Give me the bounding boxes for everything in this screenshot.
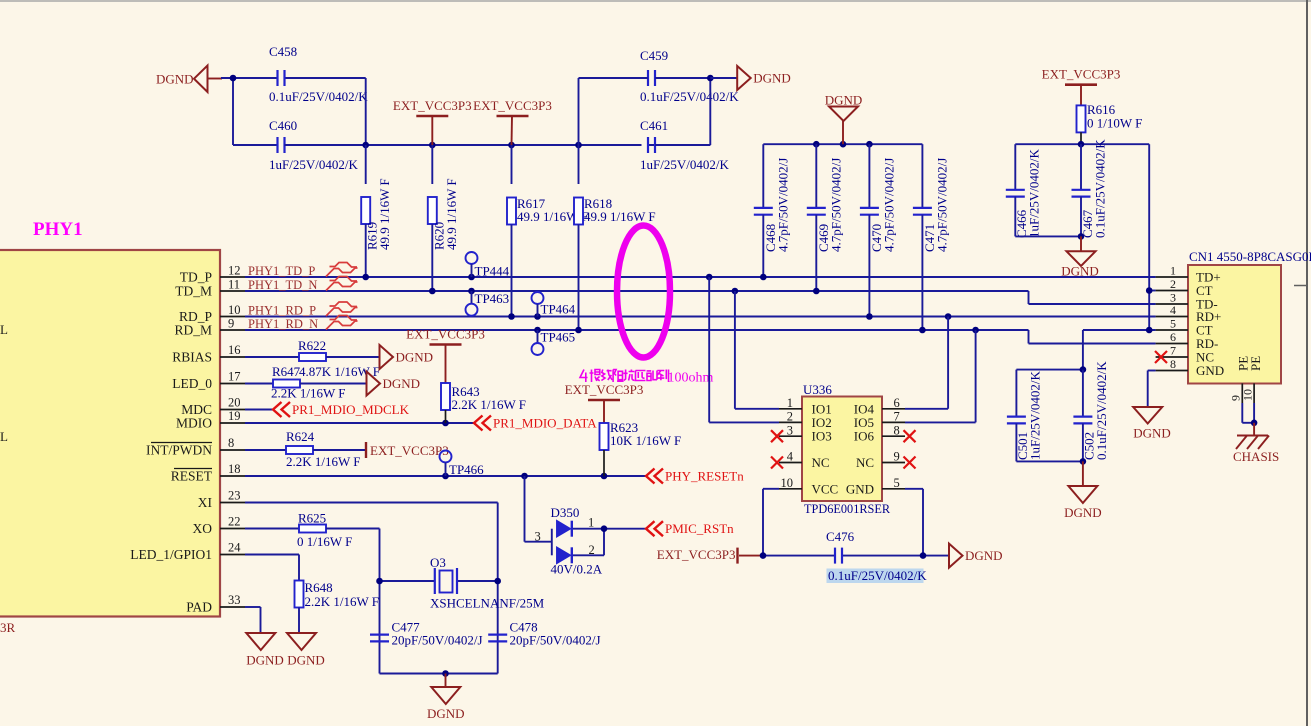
PHY1 pin 11 TD_M stub <box>220 290 245 292</box>
svg-text:1: 1 <box>787 396 793 410</box>
wire diode cathodes to PMIC_RSTn <box>573 528 646 530</box>
capacitor C501 <box>1016 369 1083 371</box>
svg-text:49.9 1/16W F: 49.9 1/16W F <box>377 178 392 250</box>
svg-text:C476: C476 <box>826 529 855 544</box>
U336 pin 4 NC <box>779 462 802 464</box>
test point TP465 <box>537 330 539 343</box>
wire C466/C467 gnd rail <box>1015 235 1081 237</box>
svg-text:2.2K 1/16W F: 2.2K 1/16W F <box>286 454 361 469</box>
U336 pin 8 IO6 <box>882 435 905 437</box>
capacitor C468 <box>762 144 764 208</box>
svg-text:XO: XO <box>193 521 213 536</box>
IC U336 body <box>802 397 882 502</box>
ground DGND (C501/C502) <box>1082 461 1084 486</box>
svg-text:4: 4 <box>787 450 794 464</box>
CN1 pins 9,10 <box>1241 383 1243 403</box>
PHY1 pin 9 RD_M stub <box>220 329 245 331</box>
U336 pin 2 IO2 <box>779 421 802 423</box>
svg-text:DGND: DGND <box>753 71 791 86</box>
wire PAD <box>245 606 261 608</box>
capacitor C469 <box>815 144 817 208</box>
U336 pin 7 IO5 <box>882 421 905 423</box>
svg-text:0.1uF/25V/0402/K: 0.1uF/25V/0402/K <box>1093 139 1108 238</box>
svg-text:TP466: TP466 <box>449 462 484 477</box>
svg-text:C459: C459 <box>640 48 668 63</box>
svg-text:TD_P: TD_P <box>180 270 212 285</box>
U336 pin 9 NC <box>882 462 905 464</box>
wire crystal ground rail <box>380 673 498 675</box>
svg-text:16: 16 <box>228 343 241 357</box>
wire VCC to CT pins <box>1148 144 1150 330</box>
svg-text:R625: R625 <box>298 511 326 526</box>
PHY1 pin 23 XI stub <box>220 502 245 504</box>
capacitor C458 <box>276 70 278 86</box>
svg-text:1: 1 <box>1170 264 1176 278</box>
resistor R619 <box>365 145 367 184</box>
capacitor C459 <box>647 70 649 86</box>
resistor R647 <box>245 383 273 385</box>
svg-text:9: 9 <box>228 317 234 331</box>
svg-text:5: 5 <box>894 476 900 490</box>
PHY1 pin 16 RBIAS stub <box>220 356 245 358</box>
svg-text:23: 23 <box>228 488 241 502</box>
sheet border right <box>1306 0 1308 726</box>
port PHY_RESETn <box>646 469 655 484</box>
power EXT_VCC3P3 (R643) <box>430 343 462 346</box>
svg-text:U336: U336 <box>803 382 832 397</box>
svg-text:PR1_MDIO_DATA: PR1_MDIO_DATA <box>493 416 597 431</box>
svg-text:DGND: DGND <box>396 350 434 365</box>
svg-text:4.7pF/50V/0402/J: 4.7pF/50V/0402/J <box>775 158 790 252</box>
capacitor C478 <box>488 633 507 635</box>
svg-text:XSHCELNANF/25M: XSHCELNANF/25M <box>430 596 545 611</box>
wire CT branch down to C501 rail <box>1082 330 1084 370</box>
svg-text:4.7pF/50V/0402/J: 4.7pF/50V/0402/J <box>828 158 843 252</box>
wire C459/C461 legs <box>579 77 649 79</box>
svg-text:DGND: DGND <box>1133 426 1171 441</box>
capacitor C502 <box>1080 366 1087 373</box>
U336 pin 1 IO1 <box>779 408 802 410</box>
resistor R648 <box>245 554 299 556</box>
wire XO down <box>379 529 381 674</box>
svg-text:DGND: DGND <box>383 376 421 391</box>
wire net PHY1_RD_P <box>245 316 1156 318</box>
PHY1 pin 12 TD_P stub <box>220 276 245 278</box>
svg-text:PHY_RESETn: PHY_RESETn <box>665 469 744 484</box>
svg-text:1uF/25V/0402/K: 1uF/25V/0402/K <box>1028 371 1043 460</box>
svg-text:XI: XI <box>198 495 213 510</box>
ground DGND (right arrow, C459) <box>737 66 751 90</box>
svg-text:C458: C458 <box>269 44 297 59</box>
wire net PHY1_TD_N <box>245 290 1029 292</box>
svg-text:IO2: IO2 <box>812 415 832 430</box>
U336 pin 10 VCC <box>779 488 802 490</box>
capacitor C466 <box>1014 144 1016 190</box>
svg-text:10: 10 <box>1241 389 1255 401</box>
svg-text:EXT_VCC3P3: EXT_VCC3P3 <box>406 327 485 342</box>
wire C501/C502 gnd rail <box>1016 460 1083 462</box>
svg-text:CHASIS: CHASIS <box>1233 449 1279 464</box>
resistor R620 <box>431 145 433 184</box>
wire U336 GND to rail <box>905 488 923 490</box>
svg-text:18: 18 <box>228 462 241 476</box>
svg-text:10K 1/16W F: 10K 1/16W F <box>610 433 681 448</box>
CN1 pin 3 TD- <box>1156 303 1188 305</box>
svg-text:7: 7 <box>894 410 900 424</box>
svg-text:TP464: TP464 <box>541 302 576 317</box>
svg-text:PHY1_RD_N: PHY1_RD_N <box>248 317 318 331</box>
svg-text:IO6: IO6 <box>854 429 875 444</box>
junction at 233,78 <box>230 75 237 82</box>
svg-text:INT/PWDN: INT/PWDN <box>146 443 212 458</box>
svg-text:PMIC_RSTn: PMIC_RSTn <box>665 521 734 536</box>
PHY1 pin 17 LED_0 stub <box>220 383 245 385</box>
svg-text:4.7pF/50V/0402/J: 4.7pF/50V/0402/J <box>881 158 896 252</box>
test point TP464 <box>532 292 544 304</box>
svg-text:DGND: DGND <box>156 72 194 87</box>
CN1 pin 8 GND <box>1156 370 1188 372</box>
wire DGND to C458/C460 <box>221 77 278 79</box>
U336 pin 3 IO3 <box>779 435 802 437</box>
svg-text:EXT_VCC3P3: EXT_VCC3P3 <box>473 98 552 113</box>
wire XI <box>245 502 498 504</box>
svg-text:2: 2 <box>1170 277 1176 291</box>
svg-text:33: 33 <box>228 593 241 607</box>
svg-text:PR1_MDIO_MDCLK: PR1_MDIO_MDCLK <box>292 402 410 417</box>
resistor R624 <box>245 449 286 451</box>
svg-text:1uF/25V/0402/K: 1uF/25V/0402/K <box>269 157 358 172</box>
svg-text:7: 7 <box>1170 344 1176 358</box>
svg-text:O3: O3 <box>430 555 446 570</box>
svg-text:5: 5 <box>1170 317 1176 331</box>
svg-text:RESET: RESET <box>171 469 213 484</box>
wire C458 right leg down to rail <box>285 144 366 146</box>
svg-text:19: 19 <box>228 409 241 423</box>
capacitor C460 <box>276 137 278 153</box>
resistor R617 <box>511 145 513 184</box>
wire TD_N to U336 IO1 <box>734 291 736 409</box>
ground DGND (R647 arrow) <box>367 372 381 396</box>
svg-text:49.9 1/16W F: 49.9 1/16W F <box>584 209 656 224</box>
no-connect X CN1 pin7 <box>1155 351 1167 363</box>
svg-text:22: 22 <box>228 514 241 528</box>
resistor R616 <box>1077 105 1086 132</box>
wire TD_P to U336 IO2 <box>708 277 710 422</box>
CN1 pin 7 NC <box>1156 356 1188 358</box>
ground DGND (crystal) <box>445 674 447 688</box>
svg-text:DGND: DGND <box>965 548 1003 563</box>
svg-text:NC: NC <box>812 455 830 470</box>
svg-text:DGND: DGND <box>427 706 465 721</box>
CN1 pin 5 CT <box>1156 329 1188 331</box>
svg-text:DGND: DGND <box>1061 264 1099 279</box>
svg-text:17: 17 <box>228 369 241 383</box>
svg-text:4: 4 <box>1170 303 1176 317</box>
svg-text:10: 10 <box>781 476 794 490</box>
resistor R643 <box>441 383 450 410</box>
svg-text:NC: NC <box>856 455 874 470</box>
svg-text:PAD: PAD <box>186 600 212 615</box>
sheet border top <box>0 0 1311 2</box>
svg-text:R624: R624 <box>286 429 315 444</box>
port PMIC_RSTn <box>646 521 655 536</box>
wire MDIO <box>245 422 474 424</box>
wire R616 node rail <box>1015 143 1149 145</box>
ground DGND (CN1 pin8) <box>1148 370 1156 372</box>
PHY1 pin 19 MDIO stub <box>220 422 245 424</box>
svg-text:DGND: DGND <box>825 93 863 108</box>
svg-text:TP444: TP444 <box>475 264 510 279</box>
diff pair directive RD_P <box>326 302 358 316</box>
svg-text:1: 1 <box>588 515 594 529</box>
svg-text:DGND: DGND <box>246 653 284 668</box>
svg-text:CN1 4550-8P8CASG0EB: CN1 4550-8P8CASG0EB <box>1189 249 1311 264</box>
diff pair directive TD_P <box>326 263 358 277</box>
svg-text:12: 12 <box>228 264 241 278</box>
wire DGND rail for C468-471 <box>763 143 922 145</box>
PHY1 pin 20 MDC stub <box>220 409 245 411</box>
svg-text:0 1/10W F: 0 1/10W F <box>1087 116 1142 131</box>
power EXT_VCC3P3 (x432) <box>416 115 448 118</box>
svg-text:PHY1_TD_N: PHY1_TD_N <box>248 278 317 292</box>
svg-text:VCC: VCC <box>812 481 839 496</box>
svg-text:R622: R622 <box>298 338 326 353</box>
svg-text:1uF/25V/0402/K: 1uF/25V/0402/K <box>640 157 729 172</box>
junction 710,78 <box>707 75 714 82</box>
U336 pin 6 IO4 <box>882 408 905 410</box>
test point TP466 <box>440 451 452 463</box>
svg-text:EXT_VCC3P3: EXT_VCC3P3 <box>565 382 644 397</box>
svg-text:PHY1_RD_P: PHY1_RD_P <box>248 304 316 318</box>
svg-text:GND: GND <box>846 481 874 496</box>
CN1 pin 2 CT <box>1156 290 1188 292</box>
svg-text:2.2K 1/16W F: 2.2K 1/16W F <box>452 397 527 412</box>
CN1 pin 6 RD- <box>1156 343 1188 345</box>
wire to DGND arrow <box>710 77 737 79</box>
wire PE to chassis <box>1241 403 1243 423</box>
svg-text:TP465: TP465 <box>541 330 576 345</box>
wire MDC <box>245 409 273 411</box>
svg-text:EXT_VCC3P3: EXT_VCC3P3 <box>370 443 449 458</box>
svg-text:TP463: TP463 <box>475 291 510 306</box>
crystal O3 <box>380 580 435 582</box>
PHY1 pin 8 INT/PWDN stub <box>220 449 245 451</box>
svg-text:R648: R648 <box>305 580 333 595</box>
svg-text:R647: R647 <box>272 364 301 379</box>
svg-text:L: L <box>0 429 8 444</box>
annotation text 4genxian impedance to 100ohm <box>580 370 669 383</box>
svg-text:IO5: IO5 <box>854 415 874 430</box>
diff pair directive RD_N <box>326 316 358 330</box>
ground DGND (PAD) <box>246 633 275 650</box>
svg-text:DGND: DGND <box>287 653 325 668</box>
PHY1 pin 18 RESET stub <box>220 475 245 477</box>
PHY1 pin 22 XO stub <box>220 528 245 530</box>
resistor R623 <box>600 423 609 450</box>
junction rail points <box>362 142 369 149</box>
svg-text:2: 2 <box>787 410 793 424</box>
power EXT_VCC3P3 (R623) <box>588 399 620 402</box>
svg-text:LED_1/GPIO1: LED_1/GPIO1 <box>130 547 212 562</box>
connector CN1 body <box>1188 265 1281 384</box>
capacitor C476 <box>834 548 836 564</box>
svg-text:3: 3 <box>787 423 793 437</box>
ground DGND (R648) <box>287 633 316 650</box>
ground DGND (R622 arrow) <box>380 345 394 369</box>
svg-text:EXT_VCC3P3: EXT_VCC3P3 <box>657 547 736 562</box>
resistor R618 <box>578 145 580 184</box>
svg-text:EXT_VCC3P3: EXT_VCC3P3 <box>1042 67 1121 82</box>
wire net PHY1_TD_P <box>245 276 1156 278</box>
wire U336 VCC to C476 rail <box>763 488 779 490</box>
annotation ellipse (impedance match) <box>617 226 670 358</box>
svg-text:0.1uF/25V/0402/K: 0.1uF/25V/0402/K <box>828 568 927 583</box>
power EXT_VCC3P3 (x511) <box>497 115 529 118</box>
ground DGND (C466/C467) <box>1080 236 1082 251</box>
svg-text:20pF/50V/0402/J: 20pF/50V/0402/J <box>510 633 601 648</box>
wire RESET to diode D350 <box>524 476 526 542</box>
svg-text:LED_0: LED_0 <box>172 376 212 391</box>
svg-text:DGND: DGND <box>1064 505 1102 520</box>
svg-text:1uF/25V/0402/K: 1uF/25V/0402/K <box>1027 149 1042 238</box>
ground DGND (C476 arrow) <box>949 544 963 568</box>
svg-text:24: 24 <box>228 540 241 554</box>
svg-text:8: 8 <box>1170 357 1176 371</box>
svg-text:20: 20 <box>228 395 241 409</box>
IC PHY1 body <box>0 250 220 617</box>
svg-text:10: 10 <box>228 303 241 317</box>
svg-text:8: 8 <box>894 423 900 437</box>
svg-text:0.1uF/25V/0402/K: 0.1uF/25V/0402/K <box>269 89 368 104</box>
svg-text:IO3: IO3 <box>812 429 832 444</box>
svg-text:20pF/50V/0402/J: 20pF/50V/0402/J <box>392 633 483 648</box>
port PR1_MDIO_MDCLK <box>273 402 282 417</box>
diff pair directive TD_N <box>326 277 358 291</box>
svg-text:4.7pF/50V/0402/J: 4.7pF/50V/0402/J <box>934 158 949 252</box>
wire RD_P to U336 IO4 <box>947 317 949 409</box>
port PR1_MDIO_DATA <box>474 416 483 431</box>
svg-text:11: 11 <box>228 278 240 292</box>
no-connect X pins 3,4,8,9 <box>771 430 783 442</box>
svg-text:C461: C461 <box>640 118 668 133</box>
svg-text:6: 6 <box>1170 330 1176 344</box>
resistor R625 <box>245 528 299 530</box>
capacitor C471 <box>921 144 923 208</box>
svg-text:D350: D350 <box>551 505 580 520</box>
svg-text:RBIAS: RBIAS <box>172 350 212 365</box>
svg-text:PHY1_TD_P: PHY1_TD_P <box>248 264 315 278</box>
svg-text:49.9 1/16W F: 49.9 1/16W F <box>444 178 459 250</box>
svg-text:0.1uF/25V/0402/K: 0.1uF/25V/0402/K <box>1094 361 1109 460</box>
PHY1 pin 33 PAD stub <box>220 606 245 608</box>
svg-text:2.2K 1/16W F: 2.2K 1/16W F <box>271 386 346 401</box>
svg-text:GND: GND <box>1196 363 1224 378</box>
svg-text:TPD6E001RSER: TPD6E001RSER <box>804 502 891 516</box>
svg-text:40V/0.2A: 40V/0.2A <box>551 562 603 577</box>
wire RESET net <box>245 475 646 477</box>
power EXT_VCC3P3 (R616) <box>1065 83 1097 86</box>
U336 pin 5 GND <box>882 488 905 490</box>
svg-text:9: 9 <box>894 450 900 464</box>
svg-text:0 1/16W F: 0 1/16W F <box>297 534 352 549</box>
power EXT_VCC3P3 (bar, R624) <box>365 442 367 458</box>
svg-text:RD_M: RD_M <box>174 323 212 338</box>
wire EXT rail y145 <box>366 144 642 146</box>
resistor R622 <box>245 356 299 358</box>
ground CHASIS <box>1253 423 1255 436</box>
wire C476 rail <box>763 555 835 557</box>
test point TP444 <box>466 252 478 264</box>
wire net PHY1_RD_N <box>245 329 1029 331</box>
svg-text:MDIO: MDIO <box>176 416 212 431</box>
capacitor C461 <box>647 137 649 153</box>
wire RD_N to U336 IO5 <box>975 330 977 422</box>
svg-text:2.2K 1/16W F: 2.2K 1/16W F <box>305 594 380 609</box>
svg-text:L: L <box>0 322 8 337</box>
junctions on diff nets <box>362 274 369 281</box>
svg-text:TD_M: TD_M <box>175 284 212 299</box>
PHY1 pin 24 LED_1/GPIO1 stub <box>220 554 245 556</box>
svg-text:PHY1: PHY1 <box>33 219 83 240</box>
CN1 pin 4 RD+ <box>1156 316 1188 318</box>
svg-text:6: 6 <box>894 396 900 410</box>
test point TP463 <box>471 291 473 304</box>
svg-text:EXT_VCC3P3: EXT_VCC3P3 <box>393 98 472 113</box>
PHY1 pin 10 RD_P stub <box>220 316 245 318</box>
svg-text:100ohm: 100ohm <box>668 371 714 386</box>
capacitor C470 <box>868 144 870 208</box>
capacitor C467 <box>1080 144 1082 190</box>
CN1 pin 1 TD+ <box>1156 276 1188 278</box>
capacitor C477 <box>370 633 389 635</box>
svg-text:3: 3 <box>535 530 541 544</box>
svg-text:PE: PE <box>1248 356 1263 371</box>
svg-text:C460: C460 <box>269 118 297 133</box>
svg-text:8: 8 <box>228 436 234 450</box>
svg-text:3R: 3R <box>0 620 16 635</box>
svg-text:0.1uF/25V/0402/K: 0.1uF/25V/0402/K <box>640 89 739 104</box>
